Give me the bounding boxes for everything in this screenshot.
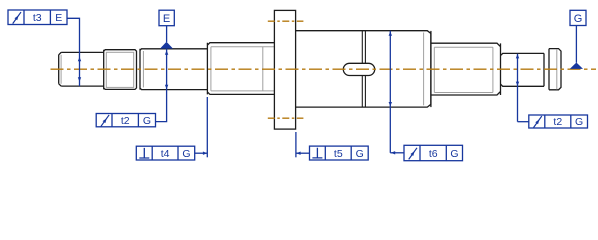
flange outline bbox=[274, 10, 295, 129]
shaft section A (left stub) outline bbox=[59, 52, 104, 86]
svg-text:t4: t4 bbox=[161, 148, 170, 160]
datum E stem bbox=[166, 26, 168, 42]
flange hole centerline upper bbox=[268, 20, 304, 22]
svg-text:E: E bbox=[55, 12, 62, 24]
leader from frame t5 to extension line bbox=[296, 152, 310, 154]
extension line from shoulder C/D bbox=[206, 97, 208, 157]
feature control frame F1: runout t3 E bbox=[8, 10, 67, 25]
leader from frame t6 to dimension line bbox=[390, 152, 404, 154]
section E chamfer tangent (gray) bbox=[423, 33, 425, 106]
feature control frame F5: runout t6 G bbox=[404, 145, 463, 160]
main centerline bbox=[51, 68, 597, 70]
svg-text:G: G bbox=[356, 148, 364, 160]
svg-text:G: G bbox=[182, 148, 190, 160]
end collar outline bbox=[549, 49, 561, 90]
svg-text:G: G bbox=[450, 148, 458, 160]
svg-text:E: E bbox=[163, 13, 170, 25]
svg-text:G: G bbox=[575, 116, 583, 128]
shaft section E outline bbox=[296, 31, 431, 107]
datum box G bbox=[570, 10, 586, 25]
section F tangent lines (gray) bbox=[434, 47, 493, 92]
svg-text:G: G bbox=[143, 115, 151, 127]
keyway slot on section E bbox=[343, 63, 374, 75]
datum E triangle bbox=[160, 42, 173, 49]
svg-text:G: G bbox=[574, 13, 583, 25]
datum G triangle on axis bbox=[570, 63, 583, 69]
dimension line on section E for t6 bbox=[389, 31, 391, 153]
svg-text:t2: t2 bbox=[121, 115, 130, 127]
datum box E bbox=[159, 10, 174, 26]
leader from frame t3 to section A bbox=[67, 18, 80, 86]
leader from frame t4 to extension line bbox=[195, 152, 208, 154]
shaft section D outline bbox=[207, 43, 274, 95]
feature control frame F2: runout t2 G bbox=[96, 114, 155, 127]
feature control frame F4: perpendicularity t5 G bbox=[310, 146, 369, 160]
shaft section F outline bbox=[431, 43, 501, 95]
section C chamfer tangent (gray) bbox=[142, 51, 144, 87]
svg-text:t3: t3 bbox=[33, 12, 42, 24]
dimension line on section G for right t2 bbox=[517, 54, 519, 122]
svg-text:t2: t2 bbox=[553, 116, 562, 128]
shaft section B (threaded collar) outline bbox=[104, 50, 137, 90]
shaft section G outline bbox=[501, 53, 545, 86]
section D tangent lines (gray) bbox=[211, 47, 275, 91]
svg-text:t5: t5 bbox=[334, 148, 343, 160]
section A chamfer tangent (gray) bbox=[60, 55, 62, 84]
datum G stem bbox=[575, 26, 577, 63]
leader from frame t2 up to datum E axis line bbox=[156, 49, 167, 122]
feature control frame F3: perpendicularity t4 G bbox=[136, 146, 194, 160]
feature control frame F6: runout t2 G (right) bbox=[529, 115, 588, 128]
flange hole centerline lower bbox=[268, 117, 304, 119]
leader from dimension line to frame right t2 bbox=[518, 121, 529, 123]
groove lines on section E bbox=[362, 31, 365, 107]
shaft section C outline bbox=[140, 49, 207, 90]
section B inner tangent rectangle (gray) bbox=[106, 52, 133, 87]
end collar tangent (gray) bbox=[556, 49, 558, 89]
extension line below flange right face bbox=[295, 132, 297, 157]
svg-text:t6: t6 bbox=[429, 148, 438, 160]
